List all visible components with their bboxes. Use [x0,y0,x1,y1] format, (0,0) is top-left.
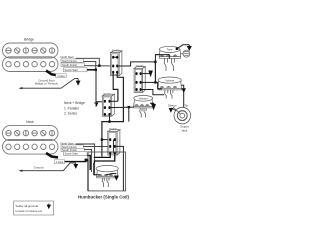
junction neck bare to box corner [85,159,88,162]
wire S4 right output down [115,146,124,190]
svg-text:Bridge: Bridge [24,38,34,42]
wire S1 bottom-right long run to S4 [102,72,124,156]
wire S4 bottom-right to ground bus [94,153,114,163]
junction bus top [154,61,156,63]
arrowhead left on bridge ground lead [19,87,23,89]
potentiometer VR1 Tone body [159,46,180,56]
junction bridge ground [95,69,97,71]
wire VR2 case ground to jack sleeve [181,85,183,107]
svg-text:Humbucker (Single Coil): Humbucker (Single Coil) [78,195,130,200]
legend note box [14,201,54,215]
svg-text:Neck + Bridge: Neck + Bridge [64,101,85,105]
node neck North Finish label [61,145,83,149]
potentiometer VR3 mounting legs [140,108,146,118]
potentiometer VR2 mounting legs [165,90,173,99]
wire bridge ground-from-tremolo lead [20,78,78,88]
wire S3 bottom-right drop [109,114,111,121]
wire bridge south-start (ground) [87,69,96,71]
node bridge South Start label [64,68,88,72]
wire tone pot case to ground [177,45,189,49]
potentiometer VR3 lugs [134,105,153,108]
svg-text:North Finish: North Finish [62,59,77,63]
wire overlay bus to tone lug [155,55,169,59]
node neck South Start label [64,151,88,155]
ground arrow neck [74,163,78,168]
wire S1 top lugs jumper [113,56,117,58]
switch S3 lugs [104,100,111,116]
svg-text:Jack: Jack [181,129,187,133]
wire neck pickup 4-conductor cable [46,153,58,157]
potentiometer VR1 mounting legs [164,58,174,71]
svg-text:Neck: Neck [26,120,34,124]
potentiometer VR3 Volume body [134,95,153,106]
wire S4 bottom-left to ground bus [94,153,110,158]
ground arrow at switch S3 [94,102,97,107]
wire hot bus vertical [154,62,156,83]
wire ground drop to switch S3 [96,70,105,102]
wire bridge south-finish to switch S1 [84,65,113,67]
ground arrow jack sleeve [169,108,172,112]
pickup PU2 neck humbucker bobbin 1 (slotted) [3,126,59,141]
ground arrow at S2 [149,71,152,76]
junction tone case [176,48,179,51]
wire S3 middle-right to volume pot VR3 [110,106,135,109]
potentiometer VR1 lugs [159,55,180,59]
svg-text:1. Parallel: 1. Parallel [64,106,79,110]
wire S2 top-right to ground [141,73,150,75]
wire inset box left ground feed [87,160,89,191]
wire S4 column jumper [112,140,114,153]
svg-text:1 bare: 1 bare [56,160,64,164]
svg-text:Tone: Tone [167,48,173,52]
wire neck bare ground [65,161,87,163]
wire bridge pickup 4-conductor cable [46,71,58,76]
wire inset pot lug feed [94,163,101,175]
junction bridge north-start/south-finish [98,65,100,67]
wire bus to volume pot VR2 lug [155,82,161,89]
wire S2 middle-right to bus [141,81,156,83]
arrowhead left on neck ground lead [19,170,23,172]
junction bus bottom [154,81,156,83]
inset detail box [88,152,126,191]
potentiometer VR4 lugs [97,175,118,178]
switch S4 lugs [109,138,116,154]
pickup PU1 bridge humbucker bobbin 2 [3,57,59,72]
svg-text:South Start: South Start [65,68,79,72]
output jack J1 [173,107,191,124]
label neck cable "1 bare" [54,160,64,164]
svg-text:2. Series: 2. Series [64,111,77,115]
potentiometer VR2 lugs [158,86,181,90]
label switching options list [64,101,85,115]
wire S1 bottom-left to S3 [113,72,118,101]
wire junction down to series link [128,107,130,121]
switch S2 lugs [136,72,142,91]
node neck South Finish label [61,148,84,152]
wire neck south-start (ground) [87,155,90,170]
wire solder-grounds arrow in inset [106,174,117,175]
switch S1 lugs [112,56,118,74]
svg-text:to back of volume pot: to back of volume pot [16,209,43,213]
wire neck south-finish [84,149,91,172]
legend ground arrow icon [47,204,50,209]
pickup PU2 neck humbucker bobbin 2 [3,139,59,154]
svg-text:South Finish: South Finish [62,63,77,67]
wire S2 bottom-right to volume pot VR2 [141,90,164,95]
ground arrow bridge tremolo [76,78,80,84]
label bridge cable "1 bare" [56,74,66,78]
potentiometer VR4 mounting legs [102,178,109,187]
ground arrow inset pot back [115,176,119,180]
ground arrow tone [188,45,192,50]
svg-text:Ground: Ground [34,165,44,169]
node bridge South Finish label [61,63,84,67]
svg-text:Bridge or Tremolo: Bridge or Tremolo [35,82,58,86]
wire bridge north-finish [83,62,95,70]
svg-text:North Start: North Start [61,55,74,59]
capacitor C1 tone cap [181,50,190,57]
pickup PU1 bridge humbucker bobbin 1 (slotted) [3,43,59,58]
wire overlay bus to VR2 lug [158,88,162,90]
junction series link [108,120,110,122]
potentiometer VR2 Volume body [158,77,181,88]
potentiometer VR4 (inset, back of volume pot) body [96,165,118,176]
svg-text:South Start: South Start [65,152,79,156]
node bridge North Finish label [61,59,83,63]
junction VR3 feed [128,106,130,108]
wire neck north-start [76,144,101,175]
wire jack sleeve ground [171,108,175,110]
switch S3 DPDT body [102,94,114,116]
ground arrow VR2 case [182,89,185,93]
wire S3 top-right to S1 drop [110,100,118,102]
svg-text:Solder all grounds: Solder all grounds [16,204,39,208]
wire bus to tone pot VR1 [155,55,169,62]
svg-text:Volume: Volume [139,97,148,101]
svg-text:Sleeve: Sleeve [168,104,177,108]
junction at S4 feed [101,138,103,140]
wire junction to S4 top lug [102,139,110,141]
switch S4 DPDT body [108,130,120,155]
wire neck ground lead [20,163,76,171]
switch S1 DPDT body [111,51,122,76]
ground arrow VR3 case [150,103,155,109]
svg-text:Tip: Tip [184,104,188,108]
switch S2 DPDT body [134,67,145,93]
svg-text:1 bare: 1 bare [57,74,65,78]
wire neck north-finish to switch S4 [83,145,110,147]
wire bridge north-start [76,58,100,65]
wire S1 output to bus junction [117,62,155,66]
svg-text:Volume: Volume [165,78,174,82]
